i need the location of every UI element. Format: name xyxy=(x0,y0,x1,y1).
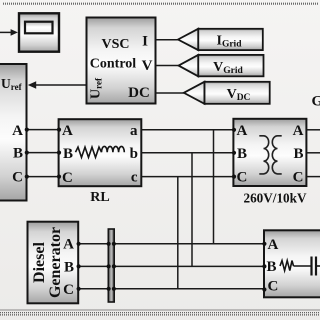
svg-text:Control: Control xyxy=(90,57,137,72)
wire into scope xyxy=(0,31,11,33)
load block (cut at right edge) xyxy=(264,230,320,297)
svg-text:C: C xyxy=(268,279,279,295)
wire A transformer to grid xyxy=(306,129,320,131)
transformer winding primary xyxy=(259,136,268,174)
svg-text:B: B xyxy=(237,146,247,162)
resistor symbol in RL xyxy=(76,147,102,157)
converter block U_ref (cut at left edge) xyxy=(0,64,27,201)
svg-text:A: A xyxy=(12,123,23,139)
svg-text:C: C xyxy=(62,170,73,186)
svg-text:B: B xyxy=(64,259,74,275)
wire A converter to RL xyxy=(27,129,59,131)
wire I xyxy=(156,39,179,41)
wire V xyxy=(156,65,179,67)
wire generator phase A xyxy=(78,243,264,245)
svg-text:A: A xyxy=(62,123,73,139)
bottom dashed border xyxy=(0,312,320,314)
top dashed border xyxy=(3,3,318,5)
bus bar node dots xyxy=(107,242,111,246)
svg-text:B: B xyxy=(63,146,73,162)
wire VSC Uref command xyxy=(36,84,87,86)
wire c RL to transformer xyxy=(141,176,233,178)
svg-text:VSC: VSC xyxy=(101,37,129,52)
wire C converter to RL xyxy=(27,176,59,178)
svg-text:B: B xyxy=(13,145,23,161)
svg-text:I: I xyxy=(142,34,148,50)
wire generator phase B xyxy=(78,265,264,267)
svg-text:260V/10kV: 260V/10kV xyxy=(243,191,306,206)
wire generator phase C xyxy=(78,288,264,290)
transformer winding secondary xyxy=(272,136,281,174)
capacitor plates xyxy=(310,257,312,276)
node dots generator outputs xyxy=(77,242,81,246)
svg-text:V: V xyxy=(142,58,153,74)
tap wire phase c down xyxy=(177,177,179,289)
tap wire phase b down xyxy=(191,153,193,267)
wire after capacitor xyxy=(316,265,320,267)
svg-text:c: c xyxy=(131,170,138,186)
svg-text:b: b xyxy=(130,146,138,162)
inductor symbol in RL xyxy=(102,146,125,152)
wire B converter to RL xyxy=(27,152,59,154)
svg-text:Diesel: Diesel xyxy=(31,242,48,283)
VSC Control block U1 xyxy=(87,18,156,104)
wire DC xyxy=(156,92,185,94)
wire B transformer to grid xyxy=(306,152,320,154)
svg-text:A: A xyxy=(268,237,279,253)
arrowhead into scope xyxy=(11,29,18,36)
svg-text:C: C xyxy=(237,170,248,186)
wire b RL to transformer xyxy=(141,152,233,154)
goto tag I_Grid xyxy=(178,29,263,50)
wire to capacitor xyxy=(294,265,312,267)
svg-text:DC: DC xyxy=(128,85,150,101)
node dots load inputs xyxy=(262,242,266,246)
svg-text:C: C xyxy=(12,169,23,185)
bottom solid border xyxy=(0,309,320,311)
svg-text:C: C xyxy=(293,170,304,186)
Diesel Generator block xyxy=(28,222,79,304)
node dots RL inputs xyxy=(57,128,61,132)
wire C transformer to grid xyxy=(306,176,320,178)
RL filter block xyxy=(59,119,142,186)
goto tag V_Grid xyxy=(179,55,264,76)
node dots transformer inputs xyxy=(232,128,236,132)
svg-text:B: B xyxy=(267,259,277,275)
svg-text:RL: RL xyxy=(90,190,109,205)
tap wire phase a down xyxy=(213,130,215,244)
svg-text:B: B xyxy=(293,146,303,162)
bus bar xyxy=(108,229,114,302)
transformer block 260V/10kV xyxy=(233,119,306,186)
scope block xyxy=(19,13,59,51)
node dots converter outputs xyxy=(25,128,29,132)
svg-text:C: C xyxy=(63,282,74,298)
wire a RL to transformer xyxy=(141,129,233,131)
svg-text:A: A xyxy=(63,237,74,253)
svg-text:A: A xyxy=(237,123,248,139)
resistor symbol in load xyxy=(280,261,294,271)
svg-text:Generator: Generator xyxy=(47,227,64,298)
svg-text:a: a xyxy=(130,123,138,139)
goto tag V_DC xyxy=(184,82,270,104)
svg-text:G: G xyxy=(312,94,320,110)
arrowhead into converter xyxy=(28,81,36,88)
svg-text:A: A xyxy=(293,123,304,139)
